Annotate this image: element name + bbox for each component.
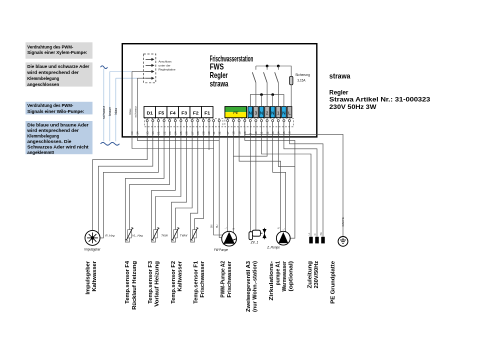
svg-text:25: 25: [179, 131, 183, 135]
terminal cell N: [248, 107, 253, 118]
wire pin23 to sensor F4: [130, 137, 170, 242]
svg-text:Schwarzes Ader wird nicht: Schwarzes Ader wird nicht: [27, 144, 89, 150]
supply pin PE: [321, 237, 325, 244]
svg-text:N: N: [232, 228, 235, 230]
terminal cell 1: [276, 107, 281, 118]
svg-text:Temp.sensor F3: Temp.sensor F3: [148, 261, 154, 304]
svg-text:Frischwasser: Frischwasser: [227, 260, 233, 298]
svg-text:angeschlossen. Die: angeschlossen. Die: [27, 139, 71, 145]
svg-text:33: 33: [130, 131, 134, 135]
terminal cell F5: [156, 107, 168, 118]
arrow pin 3: [146, 71, 152, 73]
pin 28: [197, 118, 199, 120]
pin PE3: [238, 118, 240, 120]
pin N terminal: [272, 120, 274, 122]
note block: blaue und braune Ader (blue): [26, 121, 93, 154]
svg-text:wird entsprechend der: wird entsprechend der: [26, 128, 79, 134]
arrow pin 2: [146, 64, 152, 66]
switch 2: [266, 66, 268, 70]
wire terminal 2 to FW-Pumpe: [233, 137, 267, 157]
svg-text:Sicherung: Sicherung: [295, 73, 310, 77]
wire terminal 1 joins Z-Pumpe feed: [278, 137, 295, 167]
svg-text:Zirkulations-: Zirkulations-: [269, 261, 275, 301]
switch 1: [255, 66, 257, 70]
switch 3: [277, 66, 279, 70]
pin 22: [163, 118, 165, 120]
terminal cell PE (green/yellow): [225, 107, 247, 113]
pin 31: [213, 120, 215, 122]
temp sensor TWW: [191, 240, 195, 243]
pump Z-Pumpe A1: [276, 231, 290, 245]
terminal cell F3: [179, 107, 191, 118]
svg-text:3,15A: 3,15A: [297, 79, 306, 83]
svg-text:Z_Pumpe: Z_Pumpe: [266, 245, 280, 249]
wire pin28 to sensor F1: [191, 137, 198, 242]
N bus: [250, 95, 284, 107]
terminal cell N: [259, 107, 264, 118]
svg-text:Signals einer Xylem-Pumpe:: Signals einer Xylem-Pumpe:: [27, 50, 87, 56]
wire N to Zweiwegeventil: [249, 137, 251, 232]
arrow pin 1: [146, 58, 152, 60]
svg-text:N: N: [260, 110, 263, 115]
svg-text:PWM-Pumpe A2: PWM-Pumpe A2: [220, 261, 226, 298]
pin row (dashed) right: [225, 118, 293, 126]
wire PE1 to FW-Pumpe top: [227, 137, 229, 232]
svg-text:Kaltwasser: Kaltwasser: [177, 260, 183, 291]
svg-text:(nur Wohn.-station): (nur Wohn.-station): [253, 261, 259, 312]
pin 1 terminal: [277, 120, 279, 122]
svg-text:F2: F2: [193, 110, 199, 116]
svg-text:29: 29: [202, 131, 206, 135]
svg-text:Rücklauf Heizung: Rücklauf Heizung: [132, 261, 138, 310]
wire PWM A to pump: [214, 137, 223, 235]
internal wire blau (vertical): [131, 72, 133, 137]
svg-text:BN: BN: [211, 224, 214, 228]
wire pin25 to sensor F3: [156, 137, 181, 242]
svg-text:32: 32: [217, 131, 221, 135]
wire pin24 to sensor F3: [152, 137, 176, 242]
svg-text:(optional): (optional): [289, 261, 295, 292]
svg-text:angeklemmt!: angeklemmt!: [27, 150, 54, 156]
svg-text:18: 18: [232, 131, 236, 135]
valve Zweiwegeventil ZV_1: [249, 232, 253, 240]
junction dot N2: [260, 93, 263, 96]
svg-text:Regler: Regler: [329, 89, 348, 96]
wire blau to PWM pump: [132, 137, 214, 149]
pin 30: [208, 118, 210, 120]
svg-text:N: N: [249, 110, 252, 115]
svg-text:F1: F1: [204, 110, 210, 116]
connector under controller board (dashed): [144, 54, 156, 83]
wire pin21 to Impulsgeber: [100, 137, 158, 238]
pin 29: [202, 118, 204, 120]
pin 3 terminal: [255, 120, 257, 122]
svg-text:N: N: [314, 233, 317, 235]
terminal cell N: [282, 107, 287, 118]
N stub 2: [261, 95, 263, 107]
wire pin22 to sensor F4: [125, 137, 164, 242]
svg-text:36: 36: [151, 131, 155, 135]
svg-text:230V/50Hz: 230V/50Hz: [314, 261, 320, 289]
cable break (wavy) top: [101, 66, 108, 69]
supply pin N: [315, 237, 319, 244]
svg-text:23: 23: [168, 131, 172, 135]
svg-text:17: 17: [226, 131, 230, 135]
supply pin L1: [309, 237, 313, 244]
terminal cell 2: [265, 107, 270, 118]
svg-text:F3: F3: [181, 110, 187, 116]
pin N terminal: [283, 120, 285, 122]
svg-text:Strawa Artikel Nr.: 31-000323: Strawa Artikel Nr.: 31-000323: [329, 97, 430, 104]
svg-text:Temp.sensor F2: Temp.sensor F2: [171, 261, 177, 304]
pin PE2: [232, 118, 234, 120]
terminal cell F2: [190, 107, 202, 118]
svg-text:230V 50Hz 3W: 230V 50Hz 3W: [329, 104, 377, 111]
svg-text:schwarz: schwarz: [134, 106, 138, 118]
wire PWM B to pump: [219, 137, 222, 238]
pump FW-Pumpe A2: [222, 231, 237, 246]
pin 23: [169, 118, 171, 120]
junction dot N3: [271, 93, 274, 96]
svg-text:FW Pumpe: FW Pumpe: [214, 248, 228, 252]
cable break (wavy) bottom: [101, 142, 120, 145]
svg-text:34: 34: [136, 131, 140, 135]
svg-text:Signals einer Wilo-Pumpe:: Signals einer Wilo-Pumpe:: [27, 109, 84, 115]
wire L to Zuleitung: [290, 137, 324, 237]
wire pin26 to sensor F2: [172, 137, 187, 242]
svg-text:D1: D1: [147, 110, 154, 116]
svg-text:blau: blau: [128, 108, 132, 114]
terminal cell D1: [144, 107, 156, 118]
wire PWM signal 1 (braun to controller): [110, 71, 132, 73]
junction dot switch 2: [266, 65, 269, 68]
pin 2 terminal: [266, 120, 268, 122]
note block: blaue und schwarze Ader (grey): [26, 62, 93, 86]
internal wire schwarz (vertical): [136, 78, 138, 136]
temp sensor VL_Hzg: [152, 240, 156, 243]
pin N terminal: [249, 120, 251, 122]
svg-text:Kaltwasser: Kaltwasser: [92, 260, 98, 291]
svg-text:ZV_1: ZV_1: [250, 241, 259, 245]
wire terminal 3 to Zweiwegeventil: [255, 137, 257, 231]
svg-text:PE Grundplatte: PE Grundplatte: [330, 261, 336, 304]
wire N to Zuleitung mid: [284, 137, 317, 237]
svg-text:30: 30: [207, 131, 211, 135]
terminal cell F4: [167, 107, 179, 118]
svg-text:strawa: strawa: [329, 71, 351, 80]
pin PE4: [244, 118, 246, 120]
svg-text:Temp.sensor F4: Temp.sensor F4: [125, 261, 131, 304]
pin 26: [186, 118, 188, 120]
svg-text:Zweiwegeventil A3: Zweiwegeventil A3: [246, 261, 252, 312]
arrow pin 4: [146, 77, 152, 79]
svg-text:Temp.sensor F1: Temp.sensor F1: [194, 261, 200, 304]
svg-text:Verdrahtung des PWM-: Verdrahtung des PWM-: [27, 44, 73, 50]
pin 25: [180, 118, 182, 120]
svg-text:blau: blau: [114, 108, 118, 115]
svg-text:22: 22: [162, 131, 166, 135]
svg-text:26: 26: [185, 131, 189, 135]
svg-text:21: 21: [157, 131, 161, 135]
note block: Verdrahtung Wilo-Pumpe (blue): [26, 102, 93, 115]
N stub 3: [272, 95, 274, 107]
fuse Sicherung 3,15A: [290, 76, 293, 85]
svg-text:28: 28: [196, 131, 200, 135]
pin 36: [152, 118, 154, 120]
terminal cell N: [270, 107, 275, 118]
pin 21: [157, 118, 159, 120]
svg-text:31: 31: [212, 131, 216, 135]
wire pin29 to sensor F1: [195, 137, 204, 242]
svg-text:F4: F4: [170, 110, 176, 116]
svg-text:N: N: [271, 110, 274, 115]
wire blau (external): [115, 78, 117, 141]
wire pin30 stub: [208, 137, 210, 150]
svg-text:angeschlossen: angeschlossen: [27, 82, 59, 88]
pin N terminal: [260, 120, 262, 122]
controller enclosure box: [122, 44, 316, 137]
svg-text:strawa: strawa: [210, 79, 229, 88]
wire PWM signal 2 (blau to controller): [116, 77, 138, 79]
svg-text:N: N: [278, 227, 281, 229]
svg-text:Reglerplatine: Reglerplatine: [159, 67, 176, 71]
wire pin36 to Impulsgeber: [98, 137, 152, 233]
pin 35: [146, 118, 148, 120]
svg-text:Impulsgeber: Impulsgeber: [85, 260, 91, 294]
svg-text:pumpe A1: pumpe A1: [275, 261, 281, 285]
pin PE1: [227, 118, 229, 120]
temp sensor TKW: [172, 240, 176, 243]
L bus (top): [256, 66, 291, 76]
svg-text:PE: PE: [233, 110, 239, 115]
svg-text:Vorlauf Heizung: Vorlauf Heizung: [155, 261, 161, 307]
junction dot switch 3: [277, 65, 280, 68]
svg-text:Impulsgeber: Impulsgeber: [85, 247, 102, 251]
wire PE4 branch to Z-Pumpe right: [245, 134, 295, 238]
wire PE3 to Z-Pumpe top-left: [239, 127, 281, 232]
wire pin35 to Impulsgeber: [93, 137, 148, 231]
terminal cell F1: [202, 107, 214, 118]
svg-text:Die blaue und schwarze Ader: Die blaue und schwarze Ader: [27, 64, 89, 70]
svg-text:TKW: TKW: [161, 233, 169, 237]
svg-text:schwarz: schwarz: [102, 106, 106, 119]
svg-text:N: N: [282, 110, 285, 115]
wire PE2 to FW-Pumpe: [232, 137, 234, 233]
pin 32: [218, 120, 220, 122]
wire schwarz (external): [103, 69, 105, 142]
svg-text:35: 35: [145, 131, 149, 135]
temp sensor R_Hzg: [125, 240, 129, 243]
svg-text:VL_Hzg: VL_Hzg: [132, 233, 143, 237]
terminal cell 3: [254, 107, 259, 118]
wire schwarz to PWM pump: [137, 137, 219, 141]
wire PE4 to PE Grundplatte: [245, 127, 343, 237]
wire N to Z-Pumpe top-right: [273, 137, 286, 232]
svg-text:TWW: TWW: [180, 233, 189, 237]
svg-text:Frischwasser: Frischwasser: [200, 260, 206, 298]
terminal cell L: [287, 107, 292, 118]
svg-text:wird entsprechend der: wird entsprechend der: [26, 70, 79, 76]
svg-text:PE: PE: [320, 232, 323, 236]
pin row (dashed) left: [145, 118, 223, 126]
svg-text:Klemmbelegung: Klemmbelegung: [27, 76, 59, 82]
note block: Verdrahtung Xylem-Pumpe (grey): [26, 42, 93, 58]
svg-text:Zuleitung: Zuleitung: [308, 261, 314, 288]
pin L terminal: [288, 120, 290, 122]
svg-text:R_Hzg: R_Hzg: [105, 233, 115, 237]
svg-text:BU: BU: [216, 224, 219, 228]
svg-text:Verdrahtung des PWM-: Verdrahtung des PWM-: [27, 103, 73, 109]
svg-text:F5: F5: [158, 110, 164, 116]
wire N to Zuleitung: [262, 137, 312, 237]
pin 27: [191, 118, 193, 120]
wire braun (external): [109, 72, 111, 142]
svg-text:Die blaue und braune Ader: Die blaue und braune Ader: [27, 123, 88, 129]
svg-text:27: 27: [190, 131, 194, 135]
svg-text:GN/YE: GN/YE: [341, 217, 345, 226]
Impulsgeber symbol: [85, 230, 100, 245]
wire pin27 to sensor F2: [176, 137, 193, 242]
svg-text:Warmwasser: Warmwasser: [282, 260, 288, 291]
svg-text:braun: braun: [108, 107, 112, 116]
PE Grundplatte symbol (earth): [338, 237, 348, 247]
svg-text:Klemmbelegung: Klemmbelegung: [27, 134, 59, 140]
svg-text:24: 24: [174, 131, 178, 135]
pin 24: [174, 118, 176, 120]
